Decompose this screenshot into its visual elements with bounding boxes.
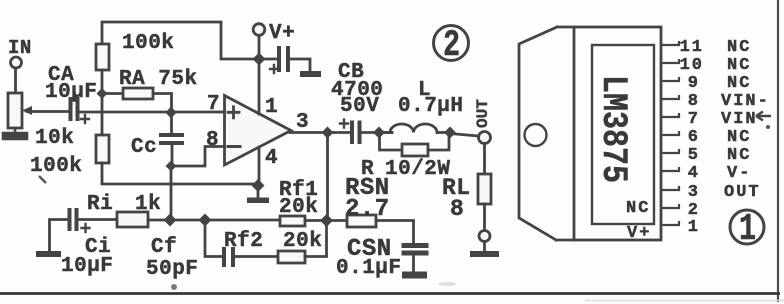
svg-text:LM3875: LM3875 — [593, 75, 633, 183]
resistor Rf2 20k — [278, 251, 305, 263]
node V+ junction — [253, 53, 266, 66]
op-amp U1 triangle — [225, 96, 292, 166]
pin 5 — [661, 149, 679, 153]
svg-text:0.1µF: 0.1µF — [336, 257, 402, 280]
node output feedback tap — [322, 127, 334, 139]
faint line bottom right — [585, 300, 784, 302]
pin 1 — [661, 221, 679, 225]
capacitor Cf 50pF — [224, 249, 233, 265]
svg-text:8: 8 — [450, 196, 464, 222]
svg-text:RA 75k: RA 75k — [119, 68, 198, 91]
resistor 100k lower — [96, 135, 109, 163]
svg-text:3: 3 — [688, 183, 700, 202]
wire node F down — [101, 93, 104, 135]
IC mounting hole — [525, 124, 547, 146]
resistor RSN 2.7 — [347, 215, 376, 227]
terminal RL bottom — [479, 231, 490, 242]
wire feedback vertical — [326, 133, 329, 222]
wire Ri to Rf1 — [148, 219, 280, 222]
svg-text:1: 1 — [739, 208, 756, 251]
svg-text:10k: 10k — [35, 127, 74, 150]
wire 100k to node F — [101, 70, 104, 93]
svg-text:NC: NC — [626, 199, 650, 218]
svg-text:20k: 20k — [279, 196, 318, 219]
svg-text:8: 8 — [206, 129, 219, 152]
node Rf2 branch left — [199, 214, 212, 227]
node pin4 ground — [252, 179, 265, 192]
ground RL — [483, 242, 486, 253]
capacitor CSN — [404, 246, 426, 254]
svg-text:100k: 100k — [122, 32, 174, 55]
circled 1 — [730, 210, 764, 244]
speck bottom — [171, 284, 177, 290]
node L left — [373, 127, 385, 139]
wire Cf to Rf2 — [235, 255, 278, 258]
speck smudge — [438, 282, 456, 286]
wire RL to terminal — [483, 204, 486, 231]
border bottom — [0, 292, 780, 295]
wire output pin3 — [290, 131, 352, 134]
wire pin1 — [258, 59, 261, 114]
opamp minus sign — [228, 145, 240, 148]
plus CA — [81, 115, 89, 123]
wire ground to Ci — [50, 220, 68, 252]
wire CA to opamp plus input — [80, 111, 227, 114]
svg-text:2: 2 — [443, 23, 460, 66]
svg-text:50pF: 50pF — [146, 258, 198, 281]
svg-text:Cc: Cc — [131, 136, 157, 159]
opamp plus sign — [228, 107, 239, 118]
svg-text:1: 1 — [688, 218, 700, 237]
svg-text:2.7: 2.7 — [345, 196, 390, 223]
inductor L 0.7uH — [379, 131, 392, 134]
pin 4 — [661, 167, 679, 171]
svg-text:Rf2: Rf2 — [224, 230, 263, 253]
pin7 dot — [766, 125, 770, 129]
svg-text:10: 10 — [680, 56, 704, 75]
wire cap to ground — [290, 59, 310, 72]
pin7 arrow — [756, 112, 771, 121]
capacitor CB — [352, 123, 360, 143]
IC inner rect — [592, 45, 654, 224]
IC pins 1-11 — [661, 41, 679, 225]
svg-text:NC: NC — [727, 74, 751, 93]
resistor Ri 1k — [117, 212, 148, 227]
wire CB to inductor — [362, 131, 393, 134]
svg-text:100k: 100k — [30, 155, 82, 178]
svg-text:OUT: OUT — [724, 183, 761, 202]
pin 8 — [661, 95, 679, 99]
svg-text:6: 6 — [688, 128, 700, 147]
pin 11 — [661, 41, 679, 45]
svg-text:NC: NC — [727, 146, 751, 165]
svg-text:NC: NC — [727, 38, 751, 57]
potentiometer 10k — [8, 93, 22, 128]
svg-text:5: 5 — [688, 146, 700, 165]
wire OUT to RL — [483, 144, 486, 175]
pin 3 — [661, 186, 679, 190]
svg-text:IN: IN — [8, 37, 32, 59]
wire V+ to decoupling cap — [259, 58, 278, 61]
wire RSN to CSN — [376, 221, 414, 244]
svg-text:OUT: OUT — [474, 99, 492, 128]
svg-text:Cf: Cf — [151, 236, 177, 259]
svg-text:0.7µH: 0.7µH — [398, 95, 464, 118]
svg-text:1: 1 — [265, 96, 278, 119]
ground Ci — [36, 251, 61, 257]
resistor Rf1 20k — [280, 216, 305, 226]
svg-text:VIN-: VIN- — [721, 92, 770, 111]
pin 9 — [661, 77, 679, 81]
node F — [97, 88, 108, 99]
svg-text:10µF: 10µF — [61, 255, 113, 278]
ground decoupling — [300, 71, 321, 77]
wire L to OUT — [450, 134, 479, 137]
svg-text:10/2W: 10/2W — [385, 158, 451, 181]
svg-text:20k: 20k — [283, 230, 322, 253]
capacitor Cc — [170, 112, 173, 133]
circled 2 — [434, 26, 469, 61]
wire 100k lower to ground line — [102, 163, 258, 184]
svg-text:4: 4 — [265, 147, 278, 170]
terminal OUT — [479, 132, 491, 144]
plus CB — [340, 120, 348, 128]
pin 7 — [661, 113, 679, 117]
capacitor CA — [71, 99, 78, 119]
svg-text:1k: 1k — [135, 193, 161, 216]
svg-text:V+: V+ — [627, 224, 651, 243]
node RA/input junction — [166, 107, 177, 119]
resistor RL 8 — [478, 174, 491, 204]
ground pin4 — [257, 189, 260, 198]
IC package tab — [519, 27, 557, 240]
resistor RA 75k — [107, 92, 123, 95]
node feedback left — [164, 214, 177, 227]
terminal V+ — [253, 24, 265, 36]
pin 10 — [661, 59, 679, 63]
plus decoupling — [270, 65, 278, 73]
svg-text:7: 7 — [207, 93, 220, 116]
node L right — [444, 127, 456, 139]
node Cc bottom — [166, 161, 177, 172]
svg-text:50V: 50V — [340, 95, 379, 118]
wire Cc node down to feedback line — [170, 166, 173, 221]
svg-text:NC: NC — [727, 56, 751, 75]
border right — [777, 0, 779, 302]
svg-text:11: 11 — [680, 38, 704, 57]
capacitor Ci 10uF — [70, 210, 77, 229]
svg-text:V-: V- — [727, 164, 751, 183]
wire pin4 to ground node — [258, 147, 261, 186]
wire Rf2 branch — [205, 220, 222, 257]
resistor 100k upper — [96, 44, 109, 70]
svg-text:4: 4 — [688, 164, 700, 183]
svg-text:Ri: Ri — [87, 193, 113, 216]
wire Rf1 to RSN — [305, 219, 347, 222]
svg-text:10µF: 10µF — [45, 81, 97, 104]
wire Ci to Ri — [79, 218, 118, 221]
capacitor decoupling — [279, 48, 288, 70]
parallel resistor R 10/2W — [380, 133, 403, 150]
svg-text:9: 9 — [688, 74, 700, 93]
wire Rf2 up — [305, 221, 327, 257]
svg-text:NC: NC — [727, 128, 751, 147]
svg-text:8: 8 — [688, 92, 700, 111]
svg-text:7: 7 — [688, 110, 700, 129]
node Rf2 branch right — [320, 214, 333, 227]
svg-text:3: 3 — [296, 111, 309, 134]
wiper arrowhead — [22, 106, 32, 115]
svg-text:VIN: VIN — [721, 110, 758, 129]
svg-text:V+: V+ — [269, 22, 295, 45]
wire minus input step — [171, 147, 226, 167]
pin 6 — [661, 131, 679, 135]
wiper wire — [27, 110, 68, 113]
pin 2 — [661, 204, 679, 208]
IC body — [574, 27, 661, 240]
wire top rail — [102, 22, 259, 59]
speck comma — [39, 176, 46, 183]
wire IN to pot — [14, 68, 17, 93]
plus Ci — [82, 224, 90, 232]
ground CSN — [412, 255, 415, 272]
ground pot — [3, 128, 27, 139]
node IN terminal — [11, 57, 22, 68]
